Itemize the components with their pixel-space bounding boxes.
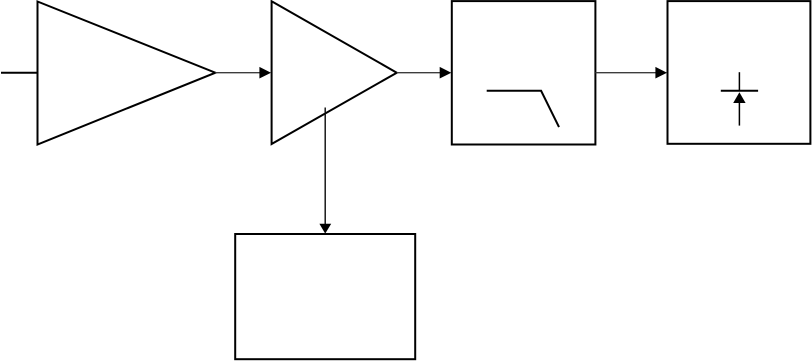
wire A2 down to feedback box xyxy=(324,108,326,225)
sampler symbol upper stem xyxy=(738,72,740,91)
arrowhead into feedback box xyxy=(319,224,331,234)
wire A1 to A2 xyxy=(215,72,260,74)
feedback/control box xyxy=(235,234,415,359)
wire input line xyxy=(1,72,38,74)
low-pass response symbol xyxy=(487,91,559,127)
sampler symbol lower stem xyxy=(738,103,740,126)
amplifier A2 (triangle) xyxy=(272,1,397,144)
sampler symbol crossbar xyxy=(721,90,758,92)
sampler box xyxy=(668,1,811,144)
arrowhead into sampler box xyxy=(655,67,667,79)
sampler symbol arrowhead (up) xyxy=(733,92,745,103)
wire A2 to filter box xyxy=(397,72,441,74)
low-pass filter box xyxy=(452,1,596,144)
arrowhead into filter box xyxy=(440,67,452,79)
arrowhead into A2 xyxy=(259,67,271,79)
amplifier A1 (triangle) xyxy=(38,2,216,145)
wire filter box to sampler box xyxy=(595,72,656,74)
